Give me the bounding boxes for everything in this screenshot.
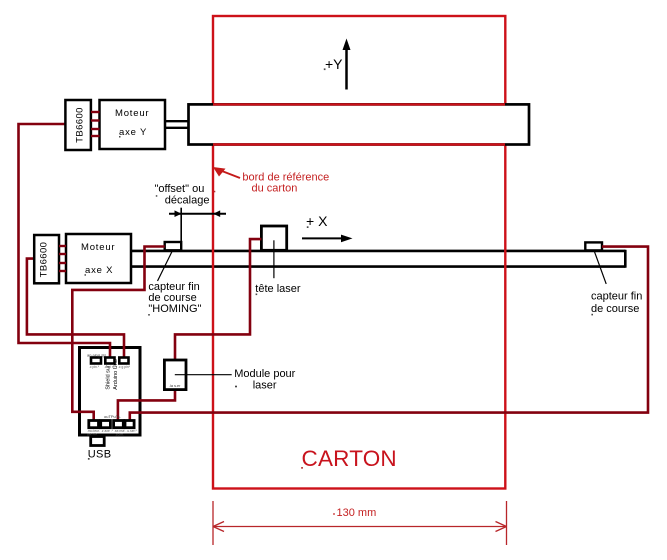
motor X box	[66, 234, 131, 283]
motor Y box	[100, 100, 166, 149]
svg-text:130 mm: 130 mm	[337, 507, 377, 519]
svg-text:CARTON: CARTON	[302, 446, 397, 471]
tiny labels under bottom connectors	[87, 429, 137, 437]
svg-text:axe X: axe X	[85, 265, 113, 276]
svg-text:"offset" ou: "offset" ou	[155, 183, 205, 195]
X rail	[131, 250, 626, 268]
label bord de reference du carton (red)	[242, 172, 329, 195]
leader module pour laser	[175, 374, 232, 376]
tete laser (laser head box on rail)	[261, 226, 286, 250]
label "offset" ou decalage	[155, 183, 210, 207]
wires TB6600-X to motor X (4 pins)	[59, 246, 66, 271]
svg-text:+ X: + X	[306, 213, 328, 229]
shaft motor Y to gantry bar (double line)	[165, 121, 189, 128]
svg-text:TB6600: TB6600	[75, 107, 86, 143]
Y gantry bar	[189, 104, 530, 144]
wire homing sensor to shield bottom connector 1	[72, 247, 164, 422]
svg-text:du carton: du carton	[252, 183, 298, 195]
shield bottom connector 2	[101, 421, 111, 428]
wire TB6600-X to Arduino shield top connector 3	[27, 259, 124, 359]
svg-text:.co.m.: .co.m.	[115, 433, 124, 437]
+X axis arrow	[302, 213, 353, 242]
Arduino shield board	[80, 348, 141, 436]
svg-text:an.alog.sjs: an.alog.sjs	[87, 353, 106, 358]
shield top connector 3	[119, 358, 128, 364]
svg-text:.u.ser.*: .u.ser.*	[127, 429, 138, 433]
carton (cardboard) red rectangle	[213, 16, 505, 489]
red arrow bord de reference	[213, 167, 240, 178]
TB6600 driver X box	[34, 235, 59, 283]
svg-text:TB6600: TB6600	[39, 242, 50, 278]
svg-text:ouTPuTs.: ouTPuTs.	[104, 414, 121, 419]
svg-text:Moteur: Moteur	[115, 108, 149, 119]
svg-text:USB: USB	[88, 449, 112, 461]
laser driver module box	[164, 360, 186, 390]
wire TB6600-Y to Arduino shield top connector 2	[19, 124, 111, 359]
svg-text:capteur fin: capteur fin	[591, 291, 642, 303]
wire laser head to laser module top	[175, 239, 261, 360]
wires TB6600-Y to motor Y (4 pins)	[91, 112, 100, 136]
shield bottom connector 1	[89, 421, 99, 428]
leader homing sensor	[158, 251, 173, 282]
shield bottom connector 4	[125, 421, 134, 428]
svg-text:+Y: +Y	[325, 56, 343, 72]
svg-text:axe Y: axe Y	[119, 127, 147, 138]
TB6600 driver Y box	[65, 100, 91, 150]
svg-text:de course: de course	[591, 303, 639, 315]
label capteur fin de course (right)	[591, 291, 642, 316]
wire shield bottom connector 4 to right end-stop sensor	[130, 247, 648, 421]
tiny print speck dots	[85, 68, 594, 468]
USB connector tab	[91, 437, 105, 446]
shield top connector 2	[105, 358, 114, 364]
svg-text:Module pour: Module pour	[234, 368, 295, 380]
capteur fin de course (sensor box on rail, right)	[585, 242, 602, 250]
label capteur fin de course HOMING	[148, 281, 201, 315]
svg-text:"HOMING": "HOMING"	[148, 303, 201, 315]
label 130 mm (red)	[333, 507, 376, 519]
tiny labels under top connectors	[89, 365, 131, 369]
svg-text:décalage: décalage	[165, 195, 210, 207]
svg-text:Moteur: Moteur	[81, 242, 115, 253]
shield top connector 1	[91, 358, 101, 364]
leader tete laser	[273, 240, 275, 278]
shield bottom connector 3	[114, 421, 124, 428]
svg-text:.c .pi n.*: .c .pi n.*	[104, 365, 117, 369]
svg-text:tête laser: tête laser	[255, 283, 301, 295]
svg-text:.la s.er: .la s.er	[169, 384, 181, 388]
svg-text:.c pin.*: .c pin.*	[89, 365, 100, 369]
leader right sensor	[594, 250, 606, 284]
wire laser module bottom to shield bottom connector 3	[118, 390, 175, 421]
label Module pour laser	[234, 368, 295, 392]
capteur fin de course HOMING (sensor box on rail, left)	[165, 242, 182, 250]
svg-text:.z axe .*: .z axe .*	[101, 429, 114, 433]
svg-text:laser: laser	[253, 380, 277, 392]
bottom dimension 130 mm (red)	[213, 501, 507, 545]
offset dimension (extension line, dim line, arrowheads)	[169, 208, 226, 242]
+Y axis arrow	[325, 39, 351, 90]
svg-text:.c g pin*: .c g pin*	[118, 365, 131, 369]
